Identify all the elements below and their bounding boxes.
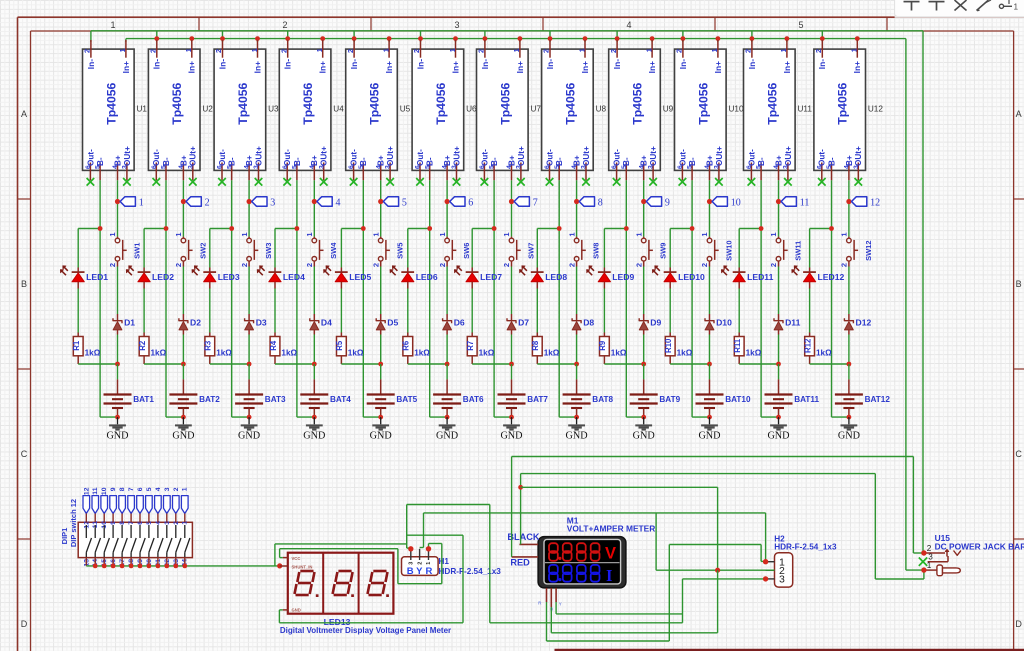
wire meter Y lead net xyxy=(556,602,682,614)
svg-text:D11: D11 xyxy=(785,318,801,328)
svg-text:2: 2 xyxy=(502,263,511,267)
svg-text:3: 3 xyxy=(270,197,275,208)
svg-text:OUt+: OUt+ xyxy=(784,146,793,166)
ground symbol GND column 11 xyxy=(767,417,789,442)
wire branch to H2 pin2 xyxy=(521,487,718,570)
value label 1kΩ column 12 xyxy=(816,348,832,357)
svg-text:OUt+: OUt+ xyxy=(189,146,198,166)
wire net battery- column 10 xyxy=(670,180,709,417)
svg-text:OUt+: OUt+ xyxy=(517,146,526,166)
TP4056 charger module U10 xyxy=(675,40,727,180)
TP4056 charger module U6 xyxy=(412,40,464,180)
wire battery- return column 4 xyxy=(297,415,317,420)
TP4056 charger module U4 xyxy=(279,40,331,180)
svg-text:2: 2 xyxy=(174,263,183,267)
battery BAT7 xyxy=(498,379,549,417)
wire net battery- column 1 xyxy=(78,180,117,417)
svg-text:In+: In+ xyxy=(450,61,460,73)
reference label U1 xyxy=(137,105,148,114)
svg-text:A: A xyxy=(21,109,27,119)
wire LED5 to R5 xyxy=(340,289,342,333)
svg-text:1: 1 xyxy=(577,48,586,52)
meter M1 lead stubs R B Y BLACK RED xyxy=(512,544,562,611)
TP4056 charger module U3 xyxy=(214,40,266,180)
svg-text:1kΩ: 1kΩ xyxy=(611,348,627,357)
svg-text:1kΩ: 1kΩ xyxy=(544,348,560,357)
svg-text:U11: U11 xyxy=(798,105,813,114)
wire stubs unit 4 input xyxy=(285,31,325,42)
svg-text:BAT9: BAT9 xyxy=(659,395,680,404)
reference label U6 xyxy=(466,105,477,114)
svg-text:Tp4056: Tp4056 xyxy=(170,82,184,124)
svg-text:SW8: SW8 xyxy=(592,243,601,259)
svg-text:In+: In+ xyxy=(384,61,394,73)
svg-text:1: 1 xyxy=(182,487,189,491)
svg-text:B-: B- xyxy=(757,157,766,166)
wire switch to diode column 9 xyxy=(643,267,645,365)
svg-text:LED7: LED7 xyxy=(480,272,502,282)
svg-text:2: 2 xyxy=(542,49,551,53)
wire stubs unit 8 input xyxy=(548,31,588,42)
svg-text:GND: GND xyxy=(566,431,588,442)
svg-text:1: 1 xyxy=(1014,3,1019,12)
svg-text:U2: U2 xyxy=(202,105,213,114)
svg-text:Tp4056: Tp4056 xyxy=(498,82,512,124)
value label 1kΩ column 3 xyxy=(216,348,232,357)
wire stubs unit 1 input xyxy=(91,31,126,42)
svg-text:R: R xyxy=(425,566,432,577)
svg-text:Out-: Out- xyxy=(613,149,622,166)
svg-text:In+: In+ xyxy=(187,61,197,73)
reference label U4 xyxy=(333,105,344,114)
svg-text:1: 1 xyxy=(426,562,432,565)
wire battery- return column 12 xyxy=(832,415,852,420)
resistor R11 xyxy=(733,333,744,365)
svg-text:4: 4 xyxy=(155,487,162,491)
svg-text:Out-: Out- xyxy=(283,149,292,166)
svg-text:1: 1 xyxy=(381,48,390,52)
svg-text:D: D xyxy=(21,619,28,629)
svg-text:R11: R11 xyxy=(733,338,742,353)
svg-text:Out-: Out- xyxy=(350,149,359,166)
schottky diode D7 xyxy=(507,314,529,335)
svg-text:U7: U7 xyxy=(531,105,542,114)
svg-text:D2: D2 xyxy=(190,318,201,328)
svg-text:BAT8: BAT8 xyxy=(592,395,613,404)
label Digital Voltmeter Display Voltage Panel Meter xyxy=(280,626,451,635)
wire switch to diode column 11 xyxy=(778,267,780,365)
net flag node 4 xyxy=(312,197,341,209)
svg-text:D7: D7 xyxy=(518,318,529,328)
svg-text:B-: B- xyxy=(688,157,697,166)
LED12 xyxy=(792,266,845,289)
wire switch to diode column 8 xyxy=(576,267,578,365)
svg-text:11: 11 xyxy=(800,197,810,208)
battery BAT1 xyxy=(104,379,155,417)
svg-text:SW7: SW7 xyxy=(526,243,535,259)
svg-text:GND: GND xyxy=(767,431,789,442)
svg-text:1: 1 xyxy=(700,232,709,236)
no-connect X on U12 Out- xyxy=(818,178,826,186)
svg-text:2: 2 xyxy=(214,49,223,53)
svg-text:LED4: LED4 xyxy=(283,272,305,282)
no-connect X on U8 Out- xyxy=(546,178,554,186)
svg-text:B: B xyxy=(1016,279,1022,289)
DC power jack U15 xyxy=(919,544,961,576)
wire stubs unit 5 input xyxy=(352,31,392,42)
svg-text:9: 9 xyxy=(110,487,117,491)
svg-text:V: V xyxy=(605,545,616,563)
svg-text:HDR-F-2.54_1x3: HDR-F-2.54_1x3 xyxy=(774,543,837,552)
value label 1kΩ column 2 xyxy=(151,348,167,357)
svg-text:R8: R8 xyxy=(531,340,540,351)
wire RED net to U15 pin2 xyxy=(512,457,924,557)
svg-text:LED11: LED11 xyxy=(747,272,773,282)
svg-text:Out-: Out- xyxy=(152,149,161,166)
svg-text:2: 2 xyxy=(279,49,288,53)
wire junction above BAT5 xyxy=(341,362,383,380)
svg-text:GND: GND xyxy=(500,431,522,442)
svg-text:SW1: SW1 xyxy=(132,243,141,259)
label H2 HDR-F-2.54_1x3 xyxy=(774,543,837,552)
title block top edge xyxy=(555,649,1024,651)
svg-text:HDR-F-2.54_1x3: HDR-F-2.54_1x3 xyxy=(439,567,502,576)
wire junction above BAT9 xyxy=(604,362,646,380)
wire display VCC/GND stubs xyxy=(279,549,282,623)
svg-text:1: 1 xyxy=(927,561,932,570)
svg-text:In+: In+ xyxy=(782,61,792,73)
wire LED7 to R7 xyxy=(471,289,473,333)
no-connect X on U7 OUt+ xyxy=(517,178,525,186)
svg-text:U3: U3 xyxy=(268,105,279,114)
header H2 HDR-F-2.54_1x3 xyxy=(766,553,793,587)
wire H2 pin2 net xyxy=(656,513,774,573)
wire net battery- column 12 xyxy=(810,180,849,417)
svg-text:Tp4056: Tp4056 xyxy=(631,82,645,124)
resistor R2 xyxy=(138,333,149,365)
svg-text:BAT11: BAT11 xyxy=(794,395,819,404)
svg-text:U5: U5 xyxy=(400,105,411,114)
svg-text:In+: In+ xyxy=(580,61,590,73)
wire stubs unit 11 input xyxy=(750,31,790,42)
no-connect X on U1 OUt+ xyxy=(123,178,131,186)
wire junction above BAT12 xyxy=(810,362,852,380)
no-connect X on U12 OUt+ xyxy=(855,178,863,186)
svg-text:1: 1 xyxy=(250,48,259,52)
svg-text:B-: B- xyxy=(426,157,435,166)
wire junction above BAT1 xyxy=(78,362,120,380)
wire junction above BAT8 xyxy=(537,362,579,380)
no-connect X on U3 OUt+ xyxy=(255,178,263,186)
svg-text:LED9: LED9 xyxy=(612,272,634,282)
svg-text:BAT5: BAT5 xyxy=(396,395,417,404)
svg-text:Tp4056: Tp4056 xyxy=(104,82,118,124)
svg-text:GND: GND xyxy=(303,431,325,442)
svg-text:A: A xyxy=(1016,109,1022,119)
svg-text:BAT12: BAT12 xyxy=(865,395,891,404)
net flag node 5 xyxy=(378,197,407,209)
svg-text:3: 3 xyxy=(454,20,459,30)
svg-text:SW4: SW4 xyxy=(329,242,338,259)
svg-text:In-: In- xyxy=(747,59,757,69)
svg-text:1kΩ: 1kΩ xyxy=(216,348,232,357)
net flag node 1 xyxy=(115,197,144,209)
wire junction above BAT10 xyxy=(670,362,712,380)
svg-text:In-: In- xyxy=(545,59,555,69)
svg-text:1kΩ: 1kΩ xyxy=(677,348,693,357)
svg-text:R2: R2 xyxy=(138,340,147,351)
svg-text:LED1: LED1 xyxy=(86,272,108,282)
svg-text:GND: GND xyxy=(698,431,720,442)
wire stubs unit 6 input xyxy=(418,31,458,42)
svg-text:B+: B+ xyxy=(113,155,122,166)
value label 1kΩ column 9 xyxy=(611,348,627,357)
svg-text:OUt+: OUt+ xyxy=(254,146,263,166)
battery BAT11 xyxy=(765,379,820,417)
svg-text:B+: B+ xyxy=(774,155,783,166)
svg-text:U6: U6 xyxy=(466,105,477,114)
wire battery- return column 10 xyxy=(692,415,712,420)
resistor R10 xyxy=(664,333,675,365)
svg-text:B-: B- xyxy=(827,157,836,166)
no-connect X on U11 Out- xyxy=(748,178,756,186)
DIP switch DIP1 (DIP switch 12) xyxy=(78,487,192,566)
svg-text:2: 2 xyxy=(305,263,314,267)
svg-text:SW10: SW10 xyxy=(724,240,733,260)
svg-text:D: D xyxy=(1015,619,1022,629)
svg-text:B+: B+ xyxy=(507,155,516,166)
TP4056 charger module U5 xyxy=(346,40,398,180)
resistor R8 xyxy=(531,333,542,365)
svg-text:B+: B+ xyxy=(640,155,649,166)
no-connect X on U6 Out- xyxy=(416,178,424,186)
svg-text:10: 10 xyxy=(731,197,741,208)
svg-text:BAT10: BAT10 xyxy=(725,395,751,404)
svg-text:12: 12 xyxy=(83,487,90,495)
label DIP switch 12 xyxy=(69,499,78,547)
svg-text:4: 4 xyxy=(336,197,341,208)
svg-text:B+: B+ xyxy=(705,155,714,166)
svg-text:SW12: SW12 xyxy=(864,240,873,260)
net flag node 8 xyxy=(574,197,603,209)
wire junction above BAT2 xyxy=(144,362,186,380)
wire meter R lead to H2 pin1 xyxy=(547,545,769,642)
schottky diode D5 xyxy=(376,314,398,335)
wire H1 B pin net xyxy=(407,505,683,623)
svg-text:1kΩ: 1kΩ xyxy=(151,348,167,357)
svg-text:In-: In- xyxy=(817,59,827,69)
svg-text:1: 1 xyxy=(139,197,144,208)
svg-text:GND: GND xyxy=(370,431,392,442)
wire junction above BAT4 xyxy=(275,362,317,380)
svg-text:Out-: Out- xyxy=(86,149,95,166)
svg-text:2: 2 xyxy=(438,263,447,267)
svg-text:H1: H1 xyxy=(439,557,450,566)
wire switch to diode column 3 xyxy=(248,267,250,365)
svg-text:B-: B- xyxy=(359,157,368,166)
svg-text:B+: B+ xyxy=(443,155,452,166)
LED7 xyxy=(454,266,502,289)
no-connect X on U6 OUt+ xyxy=(453,178,461,186)
svg-text:1: 1 xyxy=(184,48,193,52)
svg-text:BAT2: BAT2 xyxy=(199,395,220,404)
label VOLT+AMPER METER xyxy=(567,524,655,534)
svg-text:2: 2 xyxy=(108,263,117,267)
svg-text:U8: U8 xyxy=(596,105,607,114)
svg-text:B-: B- xyxy=(622,157,631,166)
wire LED3 to R3 xyxy=(209,289,211,333)
wire battery- return column 3 xyxy=(232,415,252,420)
svg-text:2: 2 xyxy=(609,49,618,53)
svg-text:R3: R3 xyxy=(204,340,213,351)
no-connect X on U11 OUt+ xyxy=(784,178,792,186)
wire battery- return column 7 xyxy=(494,415,514,420)
svg-text:2: 2 xyxy=(567,263,576,267)
ground symbol GND column 5 xyxy=(370,417,392,442)
resistor R5 xyxy=(335,333,346,365)
junction U15 pin2 xyxy=(921,550,926,555)
svg-text:B+: B+ xyxy=(845,155,854,166)
svg-text:Tp4056: Tp4056 xyxy=(434,82,448,124)
svg-text:1: 1 xyxy=(567,232,576,236)
wire LED12 to R12 xyxy=(809,289,811,333)
pushbutton switch SW4 xyxy=(305,232,338,267)
wire net battery- column 2 xyxy=(144,180,183,417)
value label 1kΩ column 4 xyxy=(281,348,297,357)
svg-text:1: 1 xyxy=(779,48,788,52)
svg-text:GND: GND xyxy=(633,431,655,442)
svg-text:1: 1 xyxy=(850,48,859,52)
TP4056 charger module U8 xyxy=(542,40,594,180)
svg-text:U12: U12 xyxy=(868,105,883,114)
wire net battery- column 4 xyxy=(275,180,314,417)
pushbutton switch SW11 xyxy=(769,232,802,267)
wire net battery- column 5 xyxy=(341,180,380,417)
svg-text:1kΩ: 1kΩ xyxy=(414,348,430,357)
svg-text:DIP switch 12: DIP switch 12 xyxy=(69,499,78,547)
pushbutton switch SW7 xyxy=(502,232,535,267)
wire BLACK net to U15 pin1 xyxy=(518,474,924,579)
wire net battery- column 11 xyxy=(739,180,778,417)
svg-text:In-: In- xyxy=(217,59,227,69)
svg-text:SW11: SW11 xyxy=(793,241,802,261)
svg-text:GND: GND xyxy=(238,431,260,442)
reference label U3 xyxy=(268,105,279,114)
svg-text:In-: In- xyxy=(152,59,162,69)
ground symbol GND column 7 xyxy=(500,417,522,442)
battery BAT5 xyxy=(367,379,418,417)
wire junction above BAT6 xyxy=(408,362,450,380)
schottky diode D9 xyxy=(639,314,661,335)
svg-text:GND: GND xyxy=(172,431,194,442)
svg-text:R12: R12 xyxy=(803,338,812,353)
svg-text:SHUNT_IN: SHUNT_IN xyxy=(292,564,313,569)
svg-text:U4: U4 xyxy=(333,105,344,114)
wire battery- return column 6 xyxy=(430,415,450,420)
ground symbol GND column 9 xyxy=(633,417,655,442)
LED8 xyxy=(519,266,567,289)
svg-text:Out-: Out- xyxy=(218,149,227,166)
wire LED8 to R8 xyxy=(536,289,538,333)
svg-text:1kΩ: 1kΩ xyxy=(479,348,495,357)
svg-text:Y: Y xyxy=(559,602,562,607)
floating toolbar xyxy=(895,0,1024,18)
svg-text:In+: In+ xyxy=(647,61,657,73)
svg-text:1: 1 xyxy=(710,48,719,52)
wire SHUNT_IN tee up to H1 B net xyxy=(275,544,407,566)
svg-text:In+: In+ xyxy=(852,61,862,73)
pushbutton switch SW1 xyxy=(108,232,141,267)
volt+ammeter module M1 display xyxy=(538,537,626,588)
net flag node 12 xyxy=(846,197,880,209)
svg-text:6: 6 xyxy=(468,197,473,208)
TP4056 charger module U9 xyxy=(609,40,661,180)
no-connect X on U3 Out- xyxy=(218,178,226,186)
svg-text:SW9: SW9 xyxy=(659,243,668,259)
svg-text:Tp4056: Tp4056 xyxy=(836,82,850,124)
svg-text:2: 2 xyxy=(149,49,158,53)
svg-text:2: 2 xyxy=(675,49,684,53)
svg-text:11: 11 xyxy=(92,487,99,494)
TP4056 charger module U7 xyxy=(477,40,529,180)
TP4056 charger module U1 xyxy=(83,40,135,180)
svg-text:1: 1 xyxy=(512,48,521,52)
svg-text:R6: R6 xyxy=(402,340,411,351)
svg-text:In-: In- xyxy=(480,59,490,69)
schottky diode D2 xyxy=(179,314,201,335)
net flag node 2 xyxy=(181,197,210,209)
label U15 xyxy=(935,533,951,543)
svg-text:Tp4056: Tp4056 xyxy=(696,82,710,124)
wire switch to diode column 2 xyxy=(182,267,184,365)
svg-text:LED3: LED3 xyxy=(218,272,240,282)
svg-text:5: 5 xyxy=(798,20,803,30)
svg-text:R1: R1 xyxy=(72,340,81,351)
svg-text:In-: In- xyxy=(283,59,293,69)
no-connect X on U9 OUt+ xyxy=(649,178,657,186)
wire stubs unit 12 input xyxy=(820,31,860,42)
svg-text:3: 3 xyxy=(408,562,414,565)
wire display VCC to H1 R pin xyxy=(280,544,442,584)
svg-text:1: 1 xyxy=(118,48,127,52)
svg-text:OUt+: OUt+ xyxy=(715,146,724,166)
battery BAT8 xyxy=(563,379,614,417)
svg-text:12: 12 xyxy=(870,197,880,208)
svg-text:2: 2 xyxy=(700,263,709,267)
svg-text:BAT6: BAT6 xyxy=(463,395,484,404)
svg-text:B-: B- xyxy=(555,157,564,166)
svg-text:B-: B- xyxy=(162,157,171,166)
net flag node 11 xyxy=(776,197,809,209)
resistor R3 xyxy=(204,333,215,365)
pushbutton switch SW2 xyxy=(174,232,207,267)
battery BAT3 xyxy=(235,379,286,417)
wire stubs unit 10 input xyxy=(681,31,721,42)
svg-text:2: 2 xyxy=(814,49,823,53)
wire switch to diode column 12 xyxy=(848,267,850,365)
svg-text:Y: Y xyxy=(416,566,423,577)
svg-text:OUt+: OUt+ xyxy=(320,146,329,166)
wire LED1 to R1 xyxy=(77,289,79,333)
svg-text:Tp4056: Tp4056 xyxy=(563,82,577,124)
svg-text:In-: In- xyxy=(349,59,359,69)
schottky diode D12 xyxy=(844,314,871,335)
wire stubs unit 7 input xyxy=(483,31,523,42)
svg-text:In+: In+ xyxy=(713,61,723,73)
wire switch to diode column 7 xyxy=(511,267,513,365)
svg-text:OUt+: OUt+ xyxy=(582,146,591,166)
LED3 xyxy=(192,266,240,289)
